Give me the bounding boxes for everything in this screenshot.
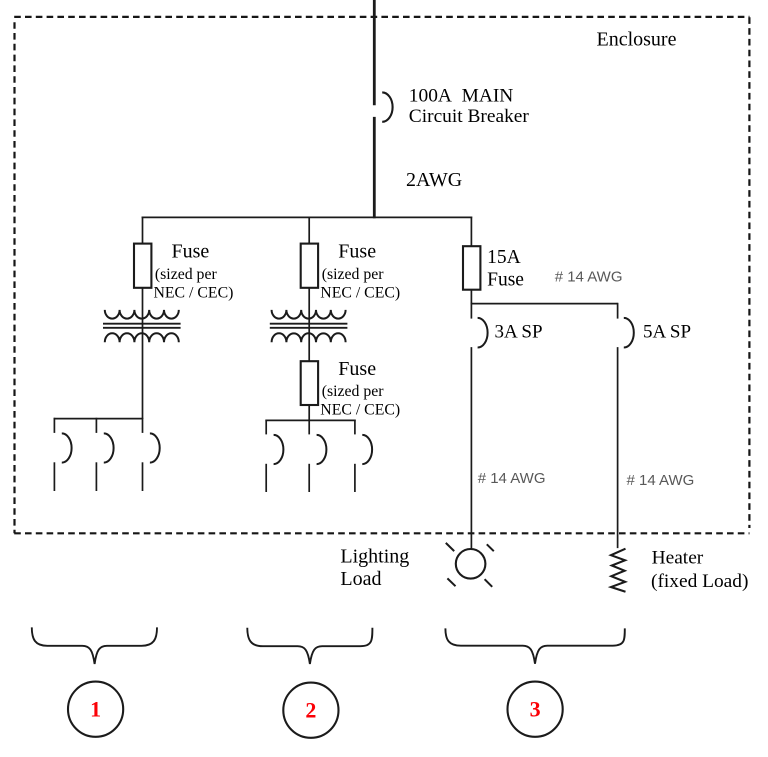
transformer T1 secondary coil bbox=[105, 333, 179, 342]
wire group2 bus bbox=[265, 419, 355, 421]
breaker CB2 3A SP: stub, arc, wire to lamp bbox=[470, 303, 472, 319]
svg-text:2: 2 bbox=[305, 698, 316, 723]
wire branch2 fuse to transformer and through bbox=[308, 288, 310, 362]
wire main feeder upper bbox=[373, 0, 376, 105]
lamp ray top-right bbox=[487, 544, 494, 551]
enclosure dashed border bbox=[14, 16, 749, 18]
group1 pole A: stub, breaker arc, lower wire bbox=[53, 418, 55, 433]
wire branch3 drop to fuse bbox=[470, 217, 472, 249]
lamp ray bottom-right bbox=[485, 579, 493, 587]
svg-text:Load: Load bbox=[340, 568, 381, 590]
svg-text:(fixed Load): (fixed Load) bbox=[651, 571, 748, 592]
svg-text:Fuse: Fuse bbox=[338, 241, 376, 263]
svg-text:3: 3 bbox=[530, 697, 541, 722]
transformer T2 core bbox=[270, 323, 348, 325]
group1 pole B: stub, breaker arc, lower wire bbox=[95, 418, 97, 433]
svg-text:Lighting: Lighting bbox=[340, 545, 409, 567]
svg-text:5A SP: 5A SP bbox=[643, 322, 691, 343]
svg-text:(sized per: (sized per bbox=[155, 266, 218, 283]
group2 pole B: stub, breaker arc, lower wire bbox=[308, 420, 310, 435]
svg-text:# 14 AWG: # 14 AWG bbox=[478, 470, 546, 487]
transformer T1 core bbox=[103, 323, 181, 325]
svg-text:(sized per: (sized per bbox=[322, 383, 385, 400]
transformer T2 primary coil bbox=[272, 310, 346, 319]
svg-text:15A: 15A bbox=[487, 247, 521, 268]
wire group1 bus bbox=[54, 418, 143, 420]
wire branch2 drop to fuse bbox=[308, 217, 310, 247]
svg-text:# 14 AWG: # 14 AWG bbox=[555, 269, 623, 286]
fuse F3 secondary bbox=[301, 361, 318, 405]
node circle 1 bbox=[68, 682, 123, 737]
brace group 1 bbox=[32, 627, 157, 664]
svg-text:Fuse: Fuse bbox=[338, 358, 376, 380]
lamp ray top-left bbox=[446, 543, 454, 551]
svg-text:100A MAIN: 100A MAIN bbox=[409, 86, 514, 107]
wire branch2 fuse3 to group bus bbox=[308, 405, 310, 421]
brace group 3 bbox=[445, 628, 624, 663]
wire main bus bbox=[142, 216, 473, 218]
svg-text:# 14 AWG: # 14 AWG bbox=[627, 472, 695, 489]
svg-text:(sized per: (sized per bbox=[322, 266, 385, 283]
wire branch1 drop to fuse bbox=[142, 217, 144, 247]
lamp bulb circle bbox=[456, 549, 486, 579]
wire fuse to split node bbox=[470, 290, 472, 305]
svg-text:Heater: Heater bbox=[652, 548, 704, 569]
group2 pole A: stub, breaker arc, lower wire bbox=[265, 420, 267, 435]
brace group 2 bbox=[247, 628, 372, 664]
fuse F4 15A bbox=[463, 246, 480, 290]
svg-text:NEC / CEC): NEC / CEC) bbox=[320, 402, 400, 419]
node circle 2 bbox=[283, 683, 338, 738]
lamp ray bottom-left bbox=[447, 578, 455, 586]
wire branch1 fuse to transformer and through bbox=[142, 288, 144, 419]
svg-text:NEC / CEC): NEC / CEC) bbox=[320, 285, 400, 302]
breaker CB3 5A SP: stub, arc, wire to heater bbox=[617, 303, 619, 319]
svg-text:Enclosure: Enclosure bbox=[597, 28, 677, 50]
wire split connector bbox=[471, 303, 618, 305]
transformer T2 secondary coil bbox=[272, 333, 346, 342]
svg-text:NEC / CEC): NEC / CEC) bbox=[154, 285, 234, 302]
svg-text:2AWG: 2AWG bbox=[406, 169, 462, 191]
group2 pole C: stub, breaker arc, lower wire bbox=[354, 420, 356, 435]
svg-text:Fuse: Fuse bbox=[487, 269, 524, 290]
breaker CB1 100A MAIN arc bbox=[382, 92, 392, 121]
node circle 3 bbox=[507, 682, 562, 737]
fuse F1 bbox=[134, 244, 151, 288]
svg-text:3A SP: 3A SP bbox=[495, 322, 543, 343]
svg-text:1: 1 bbox=[90, 697, 101, 722]
svg-text:Fuse: Fuse bbox=[172, 241, 210, 263]
group1 pole C: stub, breaker arc, lower wire bbox=[142, 418, 144, 433]
fuse F2 bbox=[301, 244, 318, 288]
wire main feeder lower bbox=[373, 117, 376, 218]
svg-text:Circuit Breaker: Circuit Breaker bbox=[409, 106, 530, 127]
transformer T1 primary coil bbox=[105, 310, 179, 319]
resistor heater zigzag bbox=[611, 549, 626, 592]
